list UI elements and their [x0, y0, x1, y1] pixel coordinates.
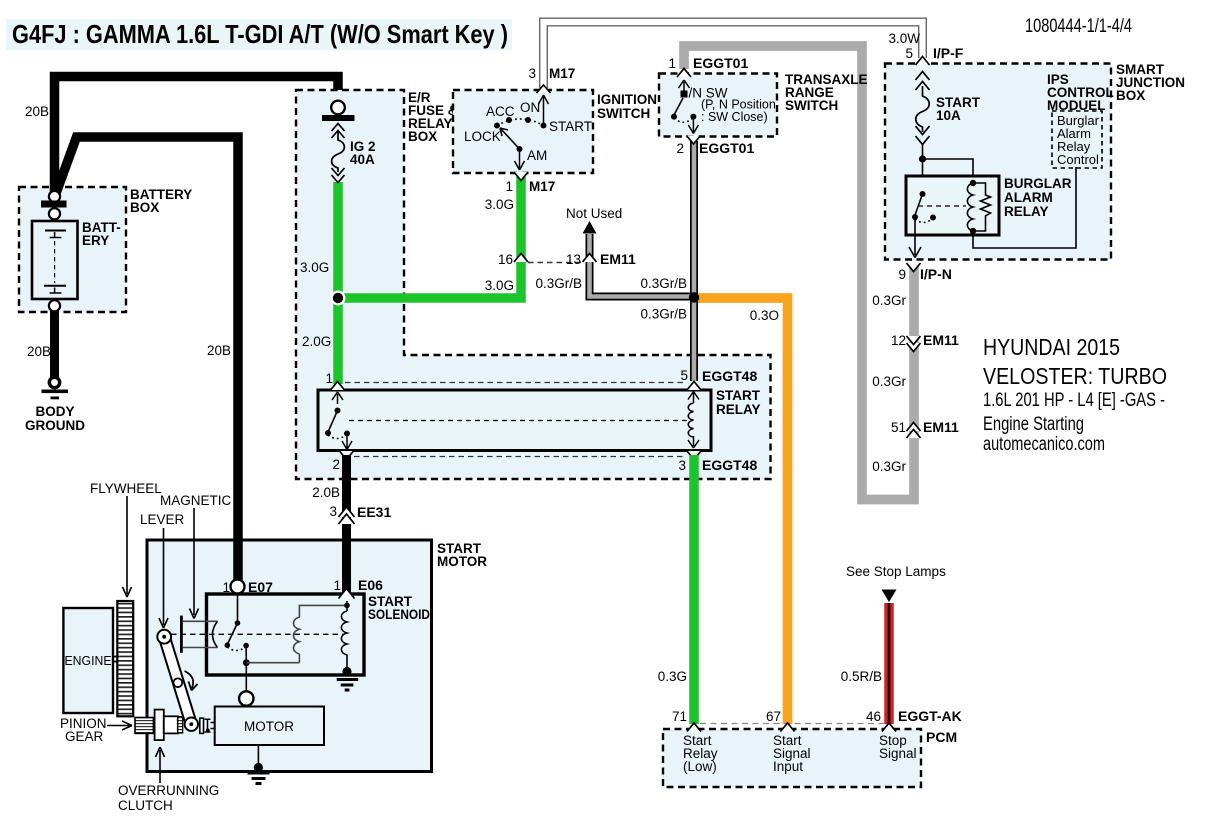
transaxle internal arrow up [679, 80, 690, 92]
IG2 fuse bar [322, 115, 355, 121]
lever arm [164, 637, 191, 725]
svg-text:0.3Gr/B: 0.3Gr/B [640, 276, 687, 291]
IPS control module label [1047, 72, 1114, 113]
transaxle P/N SW square [681, 91, 688, 98]
stop lamps triangle [882, 590, 897, 603]
battery rectangle [32, 221, 78, 299]
svg-text:40A: 40A [350, 152, 375, 167]
svg-text:2: 2 [676, 141, 684, 156]
burglar alarm relay label [1004, 176, 1072, 219]
motor terminal circle [239, 691, 253, 705]
svg-text:LEVER: LEVER [140, 512, 185, 527]
wire switch to I/P-N with arrow [909, 217, 921, 258]
relay coil [688, 403, 693, 437]
solenoid switch dot top [235, 620, 241, 626]
big gray wire EGGT01-1 to I/P-N [684, 46, 914, 500]
svg-text:EGGT48: EGGT48 [702, 457, 757, 473]
svg-text:51: 51 [891, 420, 906, 435]
svg-text:71: 71 [672, 709, 687, 724]
relay dotted arc [328, 435, 346, 439]
battery plate top [45, 230, 66, 232]
title band [6, 19, 512, 50]
burglar alarm relay box [906, 176, 999, 235]
start relay label [716, 388, 761, 417]
svg-text:: SW Close): : SW Close) [701, 110, 768, 124]
battery terminal circle mid [49, 208, 60, 219]
green junction dot [331, 291, 346, 306]
connector E06 [339, 589, 355, 599]
IG2 fuse circle [331, 101, 345, 115]
solenoid switch arm [228, 623, 238, 643]
battery label [82, 220, 121, 248]
svg-text:ALARM: ALARM [1004, 190, 1053, 205]
burglar relay switch arm [915, 194, 923, 215]
solenoid switch line from E07 [237, 593, 239, 621]
black wire 2.0B relay to E06 [342, 455, 351, 596]
connector 46 EGGT-AK [882, 723, 896, 732]
pinion gear label [60, 716, 107, 744]
svg-text:0.3G: 0.3G [658, 669, 687, 684]
svg-text:Not Used: Not Used [566, 206, 622, 221]
relay switch dot top [335, 408, 341, 414]
connector 12 EM11 [907, 336, 921, 352]
svg-text:EM11: EM11 [600, 251, 636, 267]
green wire 0.3G relay to PCM 71 [689, 455, 699, 724]
wire coil to control box [973, 167, 1076, 248]
svg-text:MAGNETIC: MAGNETIC [160, 493, 232, 508]
white wire M17-3 to I/P-F [544, 22, 923, 88]
engine flywheel link [113, 657, 117, 662]
svg-text:0.3Gr/B: 0.3Gr/B [640, 307, 687, 322]
relay switch arm [329, 411, 338, 432]
start solenoid box [207, 594, 365, 675]
svg-text:3.0G: 3.0G [485, 278, 514, 293]
svg-text:12: 12 [891, 333, 906, 348]
ignition dot AM [517, 146, 523, 152]
PCM pin texts [683, 733, 718, 774]
burglar relay switch dots [912, 214, 918, 220]
connector 67 [781, 723, 795, 732]
green wire 2.0G junction to relay [333, 298, 343, 384]
svg-text:ENGINE: ENGINE [65, 653, 112, 668]
svg-text:ACC: ACC [486, 104, 515, 119]
start relay box [318, 390, 711, 451]
svg-text:SOLENOID: SOLENOID [368, 607, 430, 622]
burglar relay coil [967, 183, 973, 231]
transaxle switch arm [675, 98, 684, 114]
svg-text:46: 46 [866, 709, 881, 724]
start solenoid label [368, 594, 430, 622]
start motor box [147, 540, 432, 772]
connector EGGT48 pin 5 [687, 382, 701, 391]
solenoid ground [337, 680, 359, 691]
solenoid coil1 [293, 605, 347, 654]
flywheel [117, 601, 133, 716]
PCM pin 46 text [879, 733, 917, 761]
wire E07 into box [233, 540, 243, 582]
svg-text:RELAY: RELAY [716, 402, 761, 417]
svg-text:SWITCH: SWITCH [785, 98, 838, 113]
relay switch arrow down [342, 435, 352, 450]
connector EE31 pin 3 [339, 507, 355, 524]
plunger bar [180, 616, 183, 653]
svg-text:BOX: BOX [408, 129, 437, 144]
wire 20B battery to IG2 fuse [55, 77, 339, 196]
pinion gear [135, 718, 153, 734]
lever bottom circle [185, 718, 198, 731]
connector 13 EM11 [583, 254, 597, 263]
wire junction to coil [923, 159, 974, 183]
svg-text:CLUTCH: CLUTCH [118, 798, 173, 813]
ignition switch arm [500, 128, 520, 149]
svg-text:2.0G: 2.0G [302, 334, 331, 349]
svg-text:ON: ON [520, 100, 540, 115]
smart junction box [885, 64, 1111, 260]
battery box label [130, 187, 192, 215]
relay internal dashed line [349, 420, 688, 422]
connector 71 [687, 723, 701, 732]
overrunning clutch label [118, 783, 219, 813]
battery terminal bar [41, 201, 67, 208]
wire contact to motor [245, 664, 247, 692]
svg-text:20B: 20B [27, 344, 51, 359]
svg-text:EGGT-AK: EGGT-AK [898, 708, 962, 724]
svg-text:HYUNDAI 2015: HYUNDAI 2015 [983, 334, 1120, 360]
solenoid ground dot [342, 667, 351, 676]
plunger lines [183, 621, 218, 647]
burglar relay resistor [973, 183, 991, 231]
flywheel label arrow [123, 496, 132, 597]
wire E06 into box [342, 540, 351, 596]
svg-text:1: 1 [668, 56, 676, 71]
svg-text:1: 1 [325, 371, 333, 386]
ignition AM arrow down [515, 149, 525, 170]
svg-text:MOTOR: MOTOR [437, 554, 487, 569]
connector I/P-N pin 9 [907, 263, 921, 272]
svg-text:EE31: EE31 [357, 504, 391, 520]
svg-text:BURGLAR: BURGLAR [1004, 176, 1072, 191]
battery terminal circle bottom [49, 300, 60, 311]
svg-text:START: START [549, 119, 592, 134]
body ground symbol [42, 377, 69, 399]
svg-text:Signal: Signal [879, 746, 917, 761]
green wire 3.0G fuse to junction [333, 182, 343, 298]
svg-text:GEAR: GEAR [65, 729, 104, 744]
svg-text:9: 9 [898, 267, 906, 282]
junction dot SJB [919, 155, 926, 162]
ignition position labels [464, 100, 592, 163]
relay coil arrow down [688, 436, 699, 448]
vehicle info text [983, 334, 1167, 455]
svg-text:0.3Gr: 0.3Gr [872, 293, 906, 308]
motor ground wire [257, 745, 259, 765]
transaxle switch dots [671, 114, 677, 120]
svg-text:0.3Gr/B: 0.3Gr/B [535, 276, 582, 291]
burglar relay coil dots [970, 180, 976, 186]
solenoid coil2 [341, 611, 347, 668]
svg-text:1: 1 [505, 179, 513, 194]
motor ground [248, 773, 270, 784]
svg-text:10A: 10A [936, 108, 961, 123]
svg-text:3: 3 [678, 458, 686, 473]
clutch shaft to motor [211, 723, 215, 729]
svg-text:MOTOR: MOTOR [244, 719, 294, 734]
PCM connector dashed line [700, 723, 884, 725]
START 10A fuse bottom chevrons [916, 126, 930, 145]
pinion label arrow [107, 721, 132, 730]
svg-text:BOX: BOX [130, 200, 159, 215]
START 10A fuse top chevrons [916, 72, 930, 91]
svg-text:Engine Starting: Engine Starting [983, 414, 1084, 435]
ignition dotted arc [497, 119, 544, 126]
svg-text:2.0B: 2.0B [312, 485, 340, 500]
svg-text:0.3Gr: 0.3Gr [872, 459, 906, 474]
svg-text:1.6L 201 HP - L4 [E] -GAS -: 1.6L 201 HP - L4 [E] -GAS - [983, 390, 1165, 411]
svg-text:PCM: PCM [926, 729, 957, 745]
svg-text:BODY: BODY [35, 404, 74, 419]
burglar relay switch dot top [920, 191, 926, 197]
burglar relay dotted arc [915, 219, 932, 223]
lever middle circle [173, 678, 182, 687]
connector M17 pin 3 [537, 85, 551, 93]
svg-text:1: 1 [222, 580, 230, 595]
battery plate bottom T [50, 288, 62, 294]
wire 20B battery to ground [50, 306, 59, 380]
E/R fuse and relay box (L-shape) [296, 90, 771, 479]
PCM pin 67 text [773, 733, 811, 774]
svg-text:EGGT01: EGGT01 [693, 55, 748, 71]
engine box [63, 608, 113, 713]
IG2 fuse wavy element [332, 131, 345, 172]
svg-text:LOCK: LOCK [464, 129, 501, 144]
svg-text:M17: M17 [529, 179, 555, 194]
E/R fuse and relay box label [408, 90, 458, 144]
junction dot gray/orange [689, 292, 699, 302]
IG2 fuse top chevrons [332, 124, 345, 139]
motor box [215, 707, 324, 746]
svg-text:ERY: ERY [82, 233, 109, 248]
svg-text:automecanico.com: automecanico.com [983, 434, 1105, 455]
overrunning label arrow [156, 747, 165, 783]
svg-text:3.0G: 3.0G [300, 260, 329, 275]
svg-text:5: 5 [680, 368, 688, 383]
svg-text:E06: E06 [358, 577, 383, 593]
svg-text:See Stop Lamps: See Stop Lamps [846, 564, 946, 579]
wire 0.3Gr/B not-used branch [590, 234, 695, 297]
svg-text:16: 16 [498, 252, 513, 267]
svg-text:AM: AM [527, 148, 547, 163]
svg-text:EGGT48: EGGT48 [702, 368, 757, 384]
svg-text:I/P-N: I/P-N [920, 266, 952, 282]
svg-text:Control: Control [1057, 152, 1099, 167]
ignition dot ON [525, 117, 531, 123]
svg-text:EGGT01: EGGT01 [699, 140, 754, 156]
svg-text:GROUND: GROUND [25, 418, 85, 433]
svg-text:0.5R/B: 0.5R/B [841, 669, 882, 684]
START 10A fuse wavy element [916, 86, 930, 132]
battery plate top T [50, 232, 62, 238]
burglar relay dashed line [918, 205, 966, 207]
connector 51 EM11 [907, 423, 921, 439]
svg-text:5: 5 [905, 46, 913, 61]
svg-text:E07: E07 [248, 579, 273, 595]
ignition dot LOCK [494, 123, 500, 129]
body ground label [25, 404, 85, 433]
solenoid switch dots [225, 642, 231, 648]
transaxle arrow down [688, 118, 698, 134]
svg-text:13: 13 [566, 252, 581, 267]
wire 0.3Gr/B EGGT01-2 to EGGT48-5 [690, 141, 698, 381]
svg-text:20B: 20B [207, 343, 231, 358]
motor ground dot [254, 763, 263, 772]
svg-text:I/P-F: I/P-F [933, 45, 964, 61]
wire fuse to relay [922, 144, 924, 194]
connector M17 pin 1 [514, 172, 528, 181]
transaxle range switch label [785, 72, 868, 113]
ignition dot START [541, 123, 547, 129]
E06 node dot [344, 603, 350, 609]
battery box [19, 187, 126, 312]
dashed link 16 to 13 [528, 262, 582, 264]
solenoid dotted arc [227, 647, 245, 651]
connector E07 [231, 580, 245, 594]
relay switch dots [325, 430, 331, 436]
lever label arrow [159, 528, 168, 628]
relay pin dashed line bottom [354, 456, 686, 458]
overrunning clutch body [155, 710, 164, 741]
svg-text:G4FJ : GAMMA 1.6L T-GDI A/T (W: G4FJ : GAMMA 1.6L T-GDI A/T (W/O Smart K… [12, 19, 508, 49]
svg-text:EM11: EM11 [923, 419, 959, 435]
solenoid dashed line [171, 633, 343, 635]
svg-text:Input: Input [773, 759, 803, 774]
svg-text:0.3O: 0.3O [750, 308, 779, 323]
relay pin dashed line top [345, 382, 686, 384]
svg-text:3.0W: 3.0W [888, 31, 920, 46]
svg-text:BOX: BOX [1116, 88, 1145, 103]
transaxle range switch box [659, 74, 777, 137]
transaxle dotted arc [674, 118, 693, 122]
svg-text:START: START [716, 388, 761, 403]
clutch bracket [200, 718, 204, 733]
relay switch arrow up [332, 392, 343, 404]
START 10A label [936, 95, 981, 123]
svg-text:FLYWHEEL: FLYWHEEL [90, 481, 162, 496]
IG2 fuse bottom chevrons [332, 168, 345, 183]
ignition dot ACC [506, 117, 512, 123]
solenoid node dot [243, 659, 250, 666]
svg-text:OVERRUNNING: OVERRUNNING [118, 783, 219, 798]
connector EGGT48 pin 3 [687, 451, 701, 460]
battery center dashed line [54, 241, 56, 283]
relay coil arrow up [688, 392, 699, 404]
not used arrow [583, 221, 597, 234]
connector pin 2 [340, 451, 354, 460]
svg-text:EM11: EM11 [923, 332, 959, 348]
connector EGGT01 pin 1 [677, 69, 691, 78]
solenoid contact link [245, 646, 247, 660]
connector I/P-F pin 5 [916, 57, 930, 66]
smart junction box label [1116, 62, 1185, 103]
svg-text:M17: M17 [549, 66, 575, 81]
svg-text:1080444-1/1-4/4: 1080444-1/1-4/4 [1025, 16, 1132, 37]
battery terminal circle top [49, 191, 60, 202]
start motor label [437, 541, 487, 569]
svg-text:1: 1 [333, 578, 341, 593]
svg-text:2: 2 [332, 457, 340, 472]
plunger contact arc [212, 621, 217, 647]
svg-text:IGNITION: IGNITION [597, 92, 657, 107]
svg-text:VELOSTER: TURBO: VELOSTER: TURBO [983, 363, 1167, 389]
lever pivot circle [157, 630, 171, 644]
ignition switch label [597, 92, 657, 121]
transaxle note [701, 98, 776, 125]
wire 20B battery to E07 [55, 137, 238, 582]
clutch shaft striped [178, 717, 183, 733]
solenoid wire to coil1 [246, 654, 299, 663]
red wire see stop lamps [884, 603, 894, 724]
ignition switch box [453, 90, 593, 173]
svg-text:RELAY: RELAY [1004, 204, 1049, 219]
IG2 fuse label [350, 139, 376, 167]
PCM box [663, 729, 921, 787]
connector 16 on green [514, 254, 528, 263]
battery plate bottom [44, 285, 66, 287]
orange wire 0.3O junction to PCM 67 [694, 298, 788, 724]
svg-text:3: 3 [329, 504, 337, 519]
svg-text:67: 67 [766, 709, 781, 724]
svg-text:3: 3 [528, 66, 536, 81]
svg-text:0.3Gr: 0.3Gr [872, 374, 906, 389]
svg-text:SWITCH: SWITCH [597, 106, 650, 121]
svg-text:3.0G: 3.0G [485, 197, 514, 212]
magnetic label arrow [190, 508, 199, 619]
svg-text:20B: 20B [25, 104, 49, 119]
burglar alarm relay control box [1052, 111, 1102, 168]
ignition internal arrow to pin 3 [539, 95, 549, 126]
svg-text:(Low): (Low) [683, 759, 717, 774]
connector EGGT48 pin 1 [331, 382, 345, 391]
lever rotation arrow [185, 671, 198, 691]
connector EGGT01 pin 2 [687, 136, 701, 145]
green wire 3.0G horizontal junction to ignition [338, 174, 521, 298]
